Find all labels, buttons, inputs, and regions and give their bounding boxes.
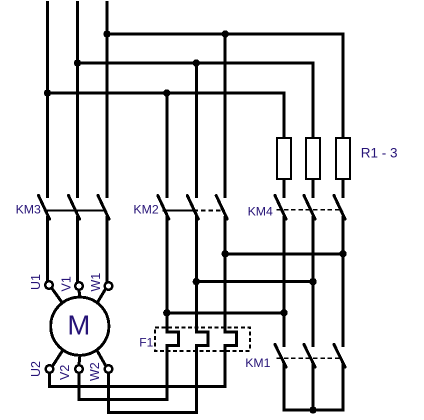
svg-text:KM4: KM4 <box>248 205 273 219</box>
svg-text:KM1: KM1 <box>245 356 270 370</box>
svg-text:U1: U1 <box>29 274 43 290</box>
svg-text:F1: F1 <box>139 336 153 350</box>
svg-text:V2: V2 <box>58 365 72 380</box>
svg-text:KM2: KM2 <box>133 203 158 217</box>
svg-text:M: M <box>67 309 90 340</box>
svg-text:W1: W1 <box>89 273 103 292</box>
svg-text:W2: W2 <box>88 362 102 381</box>
svg-text:R1 - 3: R1 - 3 <box>361 146 398 161</box>
svg-text:V1: V1 <box>59 276 73 291</box>
svg-text:U2: U2 <box>29 361 43 377</box>
svg-text:KM3: KM3 <box>16 203 41 217</box>
